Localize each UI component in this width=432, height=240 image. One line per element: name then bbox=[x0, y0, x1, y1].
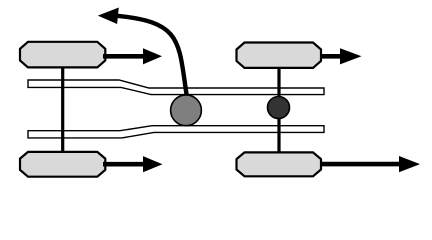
frame rail bottom bbox=[28, 126, 324, 138]
frame rail top bbox=[28, 80, 324, 95]
rear axle pivot circle bbox=[268, 97, 290, 119]
wheel rear-right bbox=[237, 152, 322, 176]
arrow front-right wheel velocity bbox=[320, 48, 362, 64]
curved yaw arrow bbox=[98, 8, 188, 101]
center of gravity circle bbox=[171, 95, 202, 126]
wheel front-right bbox=[237, 43, 322, 68]
arrow rear-left wheel velocity bbox=[103, 156, 163, 172]
front axle bbox=[61, 55, 64, 164]
wheel rear-left bbox=[20, 152, 105, 177]
arrow rear-right wheel velocity bbox=[320, 156, 420, 172]
rear axle bbox=[277, 55, 280, 164]
arrow front-left wheel velocity bbox=[103, 48, 162, 64]
wheel front-left bbox=[20, 42, 105, 68]
